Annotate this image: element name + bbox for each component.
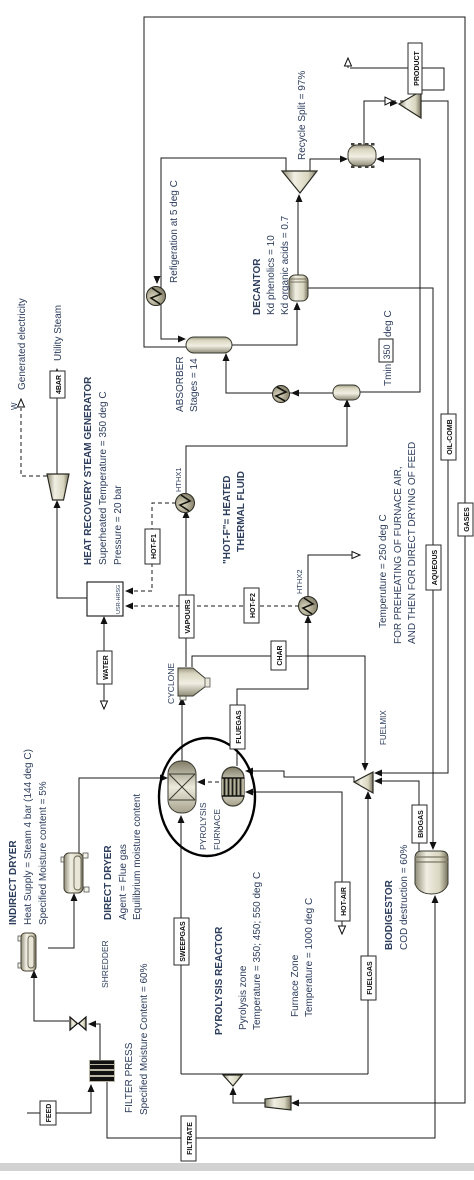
svg-text:Utility Steam: Utility Steam: [53, 305, 64, 361]
sweep gas splitter triangle: [223, 1075, 242, 1086]
svg-text:Generated electricity: Generated electricity: [17, 298, 28, 390]
wire HOT-F2 dashed HTHX2 to HRSG: [134, 605, 299, 607]
wire GASES bus absorber overhead to compressor: [144, 17, 465, 1103]
svg-text:Equilibrium moisture content: Equilibrium moisture content: [132, 794, 143, 920]
svg-text:WATER: WATER: [103, 655, 110, 680]
Tmin spec callout: [379, 310, 394, 386]
wire BIOGAS biodigestor to fuelmix: [377, 781, 419, 851]
wire HOT-AIR to furnace: [248, 792, 342, 934]
wire product mixer to PRODUCT label loop: [350, 68, 444, 90]
wire filter press to shredder: [90, 1024, 100, 1060]
direct dryer icon: [61, 853, 89, 893]
wire SWEEPGAS to reactor: [180, 818, 182, 1074]
shredder SHREDDER: [70, 1017, 86, 1030]
svg-text:HOT-F2: HOT-F2: [250, 593, 257, 618]
stream label VAPOURS: [179, 595, 194, 638]
wire HRSG steam to turbine: [57, 503, 87, 598]
svg-text:Tmin: Tmin: [383, 364, 394, 386]
wire direct dryer to pyrolysis reactor top: [79, 778, 165, 853]
HTHX1 heat exchanger: [176, 494, 195, 513]
wire indirect dryer to direct dryer: [48, 895, 74, 948]
svg-text:OIL-COMB: OIL-COMB: [447, 419, 454, 454]
stream label AQUEOUS: [426, 545, 441, 590]
svg-text:Agent = Flue gas: Agent = Flue gas: [118, 844, 129, 920]
HTHX2 heat exchanger: [299, 597, 318, 616]
wire splitter 3% to product capsule: [310, 159, 345, 171]
stream label HOT-F2: [244, 588, 259, 623]
svg-text:Superheated Temperature = 350: Superheated Temperature = 350 deg C: [98, 391, 109, 565]
wire furnace heat to reactor dashed: [200, 781, 219, 783]
svg-text:SHREDDER: SHREDDER: [100, 940, 110, 988]
svg-text:HOT-AIR: HOT-AIR: [341, 887, 348, 916]
wire FEED inlet stub: [27, 1112, 40, 1114]
svg-text:W: W: [10, 402, 19, 410]
svg-text:Kd phenolics = 10: Kd phenolics = 10: [266, 235, 277, 315]
svg-text:Temperature = 350; 450; 550 de: Temperature = 350; 450; 550 deg C: [252, 872, 263, 1030]
product mixer triangle: [399, 91, 421, 118]
wire absorber bottoms to decanter: [230, 305, 297, 345]
page edge gray band: [0, 1163, 474, 1171]
svg-text:HTHX2: HTHX2: [295, 569, 304, 594]
stream label GASES: [458, 503, 473, 536]
svg-text:HTHX1: HTHX1: [174, 467, 183, 492]
svg-text:"HOT-F"= HEATED: "HOT-F"= HEATED: [222, 476, 233, 564]
wire flash liquid to product capsule bottom: [359, 159, 420, 392]
svg-text:Kd organic acids = 0.7: Kd organic acids = 0.7: [280, 215, 291, 315]
indirect dryer icon: [18, 933, 36, 971]
HRSG user block: [87, 582, 123, 616]
wire W work stream dashed: [21, 408, 47, 476]
svg-text:USR-HRSG: USR-HRSG: [116, 585, 122, 614]
svg-text:Pressure = 20 bar: Pressure = 20 bar: [113, 485, 124, 565]
wire AQUEOUS decanter to biodigestor: [307, 288, 433, 847]
stream label FEED: [40, 1101, 56, 1125]
wire reactor vapour to cyclone: [181, 700, 183, 761]
wire FUELGAS to fuelmix: [367, 794, 369, 1074]
svg-text:PYROLYSIS: PYROLYSIS: [198, 802, 208, 850]
stream label WATER: [97, 651, 112, 684]
wire HOT-F1 dashed HTHX1 to HRSG: [134, 503, 176, 591]
decanter icon: [289, 275, 308, 301]
svg-text:Stages = 14: Stages = 14: [189, 358, 200, 412]
svg-text:Specified Moisture Content = 6: Specified Moisture Content = 60%: [139, 963, 150, 1115]
svg-text:BIODIGESTOR: BIODIGESTOR: [384, 879, 395, 950]
stream label SWEEPGAS: [174, 918, 189, 965]
svg-text:Temperature = 1000 deg C: Temperature = 1000 deg C: [304, 898, 315, 1017]
pyrolysis circle ellipse: [159, 738, 255, 856]
svg-text:350: 350: [382, 344, 392, 359]
svg-text:DECANTOR: DECANTOR: [252, 258, 263, 315]
wire recycle splitter to absorber with refrigeration: [161, 158, 286, 339]
svg-text:Recycle Split = 97%: Recycle Split = 97%: [297, 71, 308, 160]
svg-text:deg C: deg C: [383, 310, 394, 337]
svg-text:THERMAL FLUID: THERMAL FLUID: [236, 471, 247, 552]
svg-text:PYROLYSIS REACTOR: PYROLYSIS REACTOR: [214, 926, 225, 1035]
cyclone icon: [178, 668, 210, 700]
refrigeration heat exchanger: [147, 287, 166, 306]
wire FLUEGAS furnace to HTHX2 to vent: [237, 618, 308, 766]
svg-text:HOT-F1: HOT-F1: [151, 534, 158, 559]
svg-text:FEED: FEED: [46, 1104, 53, 1123]
svg-text:SWEEPGAS: SWEEPGAS: [180, 921, 187, 962]
wire shredder to indirect dryer: [34, 972, 69, 1021]
wire OIL-COMB line to fuelmix: [377, 101, 448, 773]
svg-text:FUELGAS: FUELGAS: [367, 961, 374, 995]
product capsule mixer icon: [348, 143, 376, 168]
flash preheat heat exchanger: [273, 386, 290, 403]
svg-text:FLUEGAS: FLUEGAS: [236, 710, 243, 744]
svg-text:Heat Supply = Steam 4 bar (144: Heat Supply = Steam 4 bar (144 deg C): [23, 749, 34, 925]
svg-text:COD destruction = 60%: COD destruction = 60%: [399, 845, 410, 950]
wire WATER to HRSG: [103, 619, 105, 707]
recycle splitter FSplit icon: [282, 171, 317, 193]
svg-text:Pyrolysis zone: Pyrolysis zone: [238, 965, 249, 1030]
wire compressor to sweep splitter: [233, 1090, 265, 1103]
fuelmix mixer triangle: [354, 772, 373, 793]
svg-text:CYCLONE: CYCLONE: [166, 663, 176, 704]
wire product capsule to product mixer apex: [364, 101, 396, 145]
wire turbine to 4BAR utility steam: [56, 376, 58, 474]
wire splitter base bus: [181, 1073, 368, 1075]
svg-text:AQUEOUS: AQUEOUS: [432, 549, 439, 585]
svg-text:INDIRECT DRYER: INDIRECT DRYER: [8, 840, 19, 925]
wire fuelmix outlet to furnace: [248, 771, 354, 782]
svg-text:GASES: GASES: [464, 507, 471, 532]
svg-text:FURNACE: FURNACE: [212, 809, 222, 850]
stream label OIL-COMB: [441, 414, 456, 460]
stream label HOT-AIR: [335, 882, 350, 921]
svg-text:Temperuture = 250 deg C: Temperuture = 250 deg C: [378, 514, 389, 628]
svg-text:Furnace Zone: Furnace Zone: [290, 954, 301, 1017]
wire FILTRATE filter press to biodigestor: [107, 898, 435, 1138]
stream label 4BAR: [50, 371, 65, 398]
svg-text:Refigeration at 5 deg C: Refigeration at 5 deg C: [169, 180, 180, 283]
svg-text:CHAR: CHAR: [277, 645, 284, 665]
turbine icon: [47, 474, 69, 500]
svg-text:FILTER PRESS: FILTER PRESS: [124, 1042, 135, 1113]
pyrolysis reactor RYield icon: [168, 761, 196, 813]
svg-text:FILTRATE: FILTRATE: [187, 1122, 194, 1155]
biodigestor icon: [415, 851, 448, 894]
svg-text:HEAT RECOVERY STEAM GENERATOR: HEAT RECOVERY STEAM GENERATOR: [83, 376, 94, 565]
recycle gas compressor cone: [265, 1096, 291, 1110]
stream label FILTRATE: [181, 1116, 196, 1161]
wire FEED to filter press: [56, 1086, 91, 1113]
wire flash vapour through HX to absorber bottom: [226, 356, 333, 393]
filter press FILTER-PRESS: [89, 1060, 115, 1082]
svg-text:ABSORBER: ABSORBER: [175, 356, 186, 412]
wire CHAR cyclone to fuelmix: [192, 656, 365, 768]
furnace icon: [222, 767, 245, 806]
stream label PRODUCT: [408, 43, 422, 94]
absorber column icon: [186, 337, 232, 353]
svg-text:PRODUCT: PRODUCT: [414, 50, 421, 85]
svg-text:VAPOURS: VAPOURS: [185, 599, 192, 633]
svg-text:FUELMIX: FUELMIX: [379, 710, 388, 745]
svg-text:Specified Moisture content = 5: Specified Moisture content = 5%: [38, 781, 49, 925]
wire decanter to recycle splitter: [297, 197, 299, 275]
svg-text:AND THEN FOR DIRECT DRYING OF: AND THEN FOR DIRECT DRYING OF FEED: [407, 442, 418, 644]
stream label FLUEGAS: [230, 705, 245, 749]
stream label BIOGAS: [412, 805, 427, 843]
svg-text:4BAR: 4BAR: [56, 375, 63, 394]
flash drum icon: [333, 385, 360, 400]
stream label HOT-F1: [145, 529, 160, 564]
svg-text:FOR PREHEATING OF FURNACE AIR,: FOR PREHEATING OF FURNACE AIR,: [393, 466, 404, 644]
svg-text:DIRECT DRYER: DIRECT DRYER: [103, 845, 114, 920]
svg-text:BIOGAS: BIOGAS: [418, 810, 425, 838]
wire VAPOURS cyclone to HTHX1 to flash: [186, 402, 347, 667]
stream label FUELGAS: [361, 956, 376, 1000]
stream label CHAR: [271, 641, 286, 670]
